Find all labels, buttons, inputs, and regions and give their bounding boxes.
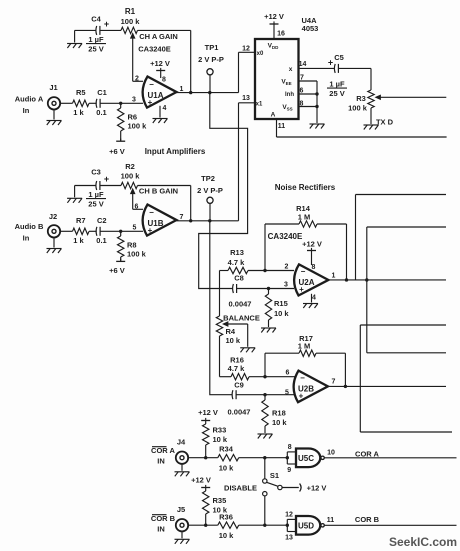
svg-text:1 M: 1 M [298, 342, 311, 351]
svg-text:12: 12 [242, 46, 250, 53]
svg-text:In: In [23, 234, 30, 243]
svg-text:R5: R5 [76, 88, 86, 97]
svg-text:Audio B: Audio B [15, 222, 44, 231]
svg-text:13: 13 [242, 95, 250, 102]
svg-text:4.7 k: 4.7 k [228, 364, 246, 373]
svg-text:+12 V: +12 V [198, 408, 218, 417]
svg-text:0.0047: 0.0047 [229, 300, 252, 309]
svg-text:1 µF: 1 µF [88, 190, 104, 199]
svg-text:8: 8 [162, 77, 166, 84]
svg-text:COR B: COR B [355, 515, 380, 524]
svg-text:R36: R36 [219, 513, 233, 522]
svg-text:11: 11 [327, 517, 335, 524]
svg-text:1 µF: 1 µF [88, 35, 104, 44]
svg-text:TP2: TP2 [201, 174, 215, 183]
svg-text:100 k: 100 k [121, 17, 141, 26]
svg-text:R2: R2 [125, 162, 135, 171]
svg-text:3: 3 [132, 96, 136, 103]
svg-text:13: 13 [285, 534, 293, 541]
svg-text:7: 7 [332, 378, 336, 385]
svg-text:−: − [149, 208, 154, 217]
svg-text:U2A: U2A [298, 278, 314, 287]
svg-text:CA3240E: CA3240E [138, 45, 171, 54]
svg-text:12: 12 [285, 511, 293, 518]
svg-text:R13: R13 [230, 248, 244, 257]
svg-text:R18: R18 [272, 409, 286, 418]
svg-text:1: 1 [180, 86, 184, 93]
svg-text:COR A: COR A [355, 449, 379, 458]
svg-text:R7: R7 [76, 216, 86, 225]
svg-text:−: − [149, 80, 154, 89]
svg-text:R33: R33 [213, 425, 227, 434]
svg-text:IN: IN [157, 457, 165, 466]
svg-text:+12 V: +12 V [150, 59, 170, 68]
svg-text:R1: R1 [125, 7, 136, 16]
svg-text:9: 9 [287, 467, 291, 474]
svg-text:R16: R16 [230, 355, 244, 364]
svg-text:C5: C5 [334, 53, 344, 62]
svg-text:x1: x1 [256, 101, 263, 107]
svg-text:R15: R15 [274, 299, 288, 308]
svg-text:Noise Rectifiers: Noise Rectifiers [275, 183, 336, 192]
svg-text:6: 6 [135, 204, 139, 211]
svg-text:TP1: TP1 [205, 43, 219, 52]
svg-text:0.1: 0.1 [96, 236, 106, 245]
svg-text:In: In [23, 106, 30, 115]
svg-text:100 k: 100 k [128, 121, 148, 130]
svg-text:2 V P-P: 2 V P-P [198, 55, 224, 64]
svg-text:100 k: 100 k [348, 103, 368, 112]
svg-text:C8: C8 [234, 273, 244, 282]
svg-text:2 V P-P: 2 V P-P [197, 186, 223, 195]
svg-text:8: 8 [288, 444, 292, 451]
svg-text:10 k: 10 k [213, 435, 228, 444]
svg-text:+12 V: +12 V [302, 240, 322, 249]
svg-text:1 k: 1 k [73, 108, 84, 117]
svg-text:+12 V: +12 V [307, 483, 327, 492]
svg-text:R35: R35 [213, 496, 227, 505]
svg-text:11: 11 [278, 123, 286, 130]
svg-text:CA3240E: CA3240E [268, 232, 303, 241]
svg-text:100 k: 100 k [121, 172, 141, 181]
svg-text:1 k: 1 k [73, 236, 84, 245]
svg-text:x: x [289, 66, 293, 73]
svg-text:10 k: 10 k [219, 463, 234, 472]
svg-text:2: 2 [135, 75, 139, 82]
svg-text:7: 7 [180, 214, 184, 221]
svg-text:5: 5 [133, 224, 137, 231]
svg-text:4053: 4053 [302, 24, 319, 33]
svg-text:SeekIC.com: SeekIC.com [389, 535, 457, 549]
svg-text:10 k: 10 k [219, 531, 234, 540]
svg-text:+: + [104, 19, 109, 29]
svg-text:+12 V: +12 V [191, 476, 211, 485]
svg-text:U5D: U5D [298, 521, 314, 530]
svg-text:4.7 k: 4.7 k [228, 258, 246, 267]
svg-text:3: 3 [284, 281, 288, 288]
svg-text:x0: x0 [257, 51, 264, 57]
svg-text:C2: C2 [97, 216, 107, 225]
svg-text:5: 5 [285, 390, 289, 397]
svg-text:25 V: 25 V [88, 45, 103, 54]
svg-text:10 k: 10 k [274, 309, 289, 318]
svg-text:A: A [271, 111, 276, 118]
svg-text:Input Amplifiers: Input Amplifiers [145, 147, 206, 156]
svg-text:U2B: U2B [298, 385, 314, 394]
svg-text:C3: C3 [91, 168, 101, 177]
svg-text:U1B: U1B [147, 219, 163, 228]
svg-text:1 µF: 1 µF [329, 79, 345, 88]
svg-text:BALANCE: BALANCE [223, 313, 260, 322]
svg-text:16: 16 [277, 31, 285, 38]
svg-text:C9: C9 [234, 380, 244, 389]
svg-text:8: 8 [312, 264, 316, 271]
svg-text:U1A: U1A [147, 91, 163, 100]
svg-text:+6 V: +6 V [109, 266, 125, 275]
svg-text:25 V: 25 V [329, 89, 344, 98]
svg-text:C4: C4 [91, 15, 101, 24]
svg-text:4: 4 [312, 294, 316, 301]
svg-text:+: + [328, 58, 333, 68]
svg-text:−: − [300, 374, 305, 383]
svg-text:IN: IN [157, 525, 165, 534]
svg-text:R34: R34 [219, 445, 234, 454]
svg-text:Inh: Inh [285, 92, 294, 98]
svg-text:R8: R8 [127, 241, 137, 250]
svg-text:J5: J5 [177, 505, 185, 514]
svg-text:14: 14 [299, 61, 307, 68]
svg-text:2: 2 [285, 263, 289, 270]
svg-text:100 k: 100 k [127, 249, 147, 258]
svg-text:+12 V: +12 V [264, 12, 284, 21]
svg-text:COR B: COR B [151, 514, 176, 523]
svg-text:DISABLE: DISABLE [224, 483, 257, 492]
svg-text:10 k: 10 k [226, 336, 241, 345]
svg-text:J1: J1 [49, 83, 57, 92]
svg-text:R3: R3 [356, 94, 366, 103]
svg-text:J4: J4 [177, 437, 186, 446]
svg-text:CH B GAIN: CH B GAIN [139, 186, 178, 195]
svg-text:0.1: 0.1 [96, 108, 106, 117]
svg-text:25 V: 25 V [88, 199, 103, 208]
svg-text:J2: J2 [49, 212, 57, 221]
svg-text:COR A: COR A [151, 446, 175, 455]
svg-text:−: − [301, 267, 306, 276]
svg-text:4: 4 [163, 105, 167, 112]
svg-text:10: 10 [327, 449, 335, 456]
svg-text:6: 6 [286, 370, 290, 377]
svg-text:TX D: TX D [376, 117, 394, 126]
svg-text:U5C: U5C [298, 454, 314, 463]
svg-text:C1: C1 [97, 88, 107, 97]
svg-text:CH A GAIN: CH A GAIN [139, 32, 178, 41]
svg-text:1: 1 [332, 272, 336, 279]
svg-text:R4: R4 [226, 327, 236, 336]
svg-text:0.0047: 0.0047 [228, 408, 251, 417]
svg-text:1 M: 1 M [298, 213, 311, 222]
svg-text:10 k: 10 k [272, 418, 287, 427]
svg-text:Audio A: Audio A [15, 95, 44, 104]
svg-text:S1: S1 [270, 471, 279, 480]
svg-text:+6 V: +6 V [109, 147, 125, 156]
svg-text:+: + [104, 174, 109, 184]
